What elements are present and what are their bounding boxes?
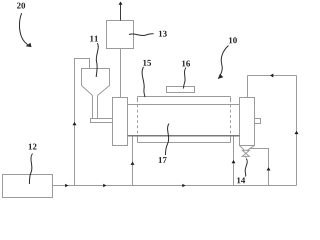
shell 15 dashed hidden ends — [138, 100, 231, 136]
arrow up on right drain branch — [232, 160, 236, 163]
wire drum drain branch right — [233, 137, 235, 186]
arrow up exhaust above box 13 — [119, 2, 123, 5]
label 14 — [237, 177, 245, 183]
right end cap — [240, 98, 255, 146]
arrow left on top return — [270, 74, 273, 78]
shell 15 top line — [138, 96, 231, 98]
shell 15 left end connectors — [137, 97, 139, 143]
wire discharge branch — [250, 149, 269, 186]
leader 10 — [219, 46, 228, 77]
shell 15 right end connectors — [230, 97, 232, 143]
drum 17 bottom line (darker) — [128, 135, 240, 137]
arrow right on bottom pipe 2 — [103, 184, 106, 188]
arrow up on discharge branch — [267, 167, 271, 170]
leader 15 — [142, 67, 145, 97]
arrow right on bottom pipe 3 — [182, 184, 185, 188]
leader 20 — [19, 13, 29, 46]
label 17 — [159, 157, 167, 163]
box 16 — [167, 87, 195, 93]
leader 13 — [129, 34, 154, 36]
label 15 — [143, 60, 151, 66]
arrow right on bottom pipe 1 — [65, 184, 68, 188]
wire right riser — [296, 76, 298, 186]
box 13 — [107, 21, 134, 49]
label 20 — [17, 3, 25, 9]
shell 15 bottom line — [138, 142, 231, 144]
arrow up on left drain branch — [131, 162, 135, 165]
label 10 — [229, 37, 237, 43]
label 16 — [182, 61, 190, 67]
leader 14 — [245, 159, 247, 177]
arrow up on right riser — [295, 131, 299, 134]
valve 14 hourglass — [242, 150, 249, 157]
wire feed riser to hopper — [75, 59, 90, 186]
leader 16 — [184, 68, 187, 89]
flow arrowheads — [65, 2, 298, 188]
nozzle stub on right end cap — [255, 119, 261, 124]
leader lines (dark squiggles) — [19, 13, 247, 184]
left end cap — [113, 98, 128, 146]
leader 17 — [166, 124, 170, 156]
hopper foot — [91, 119, 113, 123]
wire box13 to left end cap — [120, 49, 122, 98]
label 11 — [90, 36, 98, 42]
label 13 — [159, 31, 167, 37]
leader 11 — [96, 43, 98, 77]
wire jacket drain branch left — [132, 137, 134, 186]
wire bottom pipe from box 12 to right corner — [53, 185, 297, 187]
wire drop into right end cap — [247, 76, 249, 98]
label 12 — [29, 144, 37, 150]
box 12 — [3, 175, 53, 198]
arrow up on feed riser — [73, 122, 77, 125]
discharge funnel — [240, 146, 255, 151]
hopper 11 — [82, 69, 110, 119]
wire box13 exhaust up (dark) — [120, 4, 122, 20]
leader 12 — [29, 154, 32, 185]
drum 17 top line — [128, 104, 240, 106]
wire top return line — [248, 75, 297, 77]
